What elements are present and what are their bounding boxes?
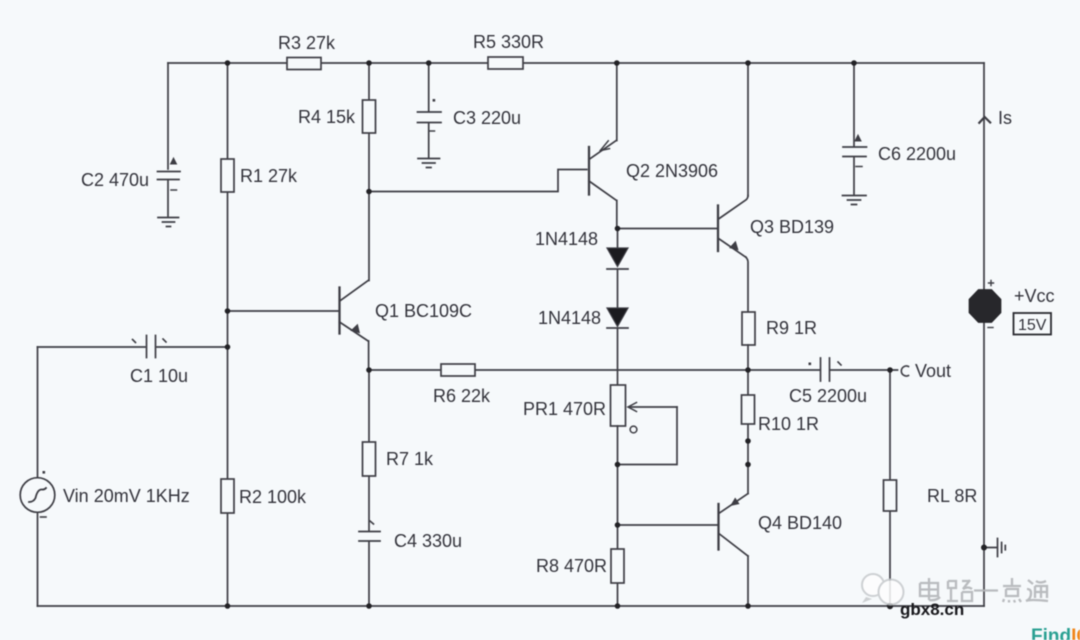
wire C6 branch <box>853 63 855 195</box>
transistor Q2 <box>588 147 590 195</box>
svg-text:Q4 BD140: Q4 BD140 <box>758 513 842 533</box>
node C1 right <box>225 344 231 350</box>
node bottom x617 <box>615 603 621 609</box>
resistor RL <box>884 480 897 511</box>
svg-text:PR1 470R: PR1 470R <box>523 399 606 419</box>
char tong <box>1026 580 1048 601</box>
svg-text:R6 22k: R6 22k <box>433 386 491 406</box>
wire mid output rail <box>369 369 898 371</box>
wire bottom rail <box>38 605 985 607</box>
node R10 Q4 a <box>745 438 751 444</box>
wire C1 branch <box>38 346 228 348</box>
resistor R2 <box>221 479 234 513</box>
ground below C6 <box>856 166 862 168</box>
wire left input column <box>37 347 39 606</box>
svg-text:R9 1R: R9 1R <box>766 318 817 338</box>
char dian2 <box>1003 578 1021 603</box>
wire top rail <box>168 62 984 64</box>
wire R4 column <box>368 63 370 192</box>
resistor R7 <box>363 442 376 476</box>
capacitor C3 <box>418 112 442 123</box>
resistor R4 <box>363 100 376 133</box>
svg-text:Is: Is <box>998 108 1012 128</box>
wire Q2 base with jog <box>369 170 587 192</box>
capacitor C2 <box>158 172 181 180</box>
capacitor C5 <box>821 358 830 381</box>
svg-text:R1 27k: R1 27k <box>240 166 298 186</box>
watermark logo bubbles <box>862 574 904 605</box>
node R9 R10 <box>745 367 751 373</box>
resistor R6 <box>441 364 475 376</box>
terminal Vout <box>901 366 908 376</box>
svg-text:R2 100k: R2 100k <box>239 487 307 507</box>
resistor R10 <box>742 395 755 424</box>
svg-text:RL 8R: RL 8R <box>927 486 977 506</box>
node R4 bottom <box>366 189 372 195</box>
transistor Q4 <box>747 465 749 494</box>
node C5 RL <box>887 367 893 373</box>
node top rail x854 <box>851 60 857 66</box>
potentiometer PR1 <box>611 385 626 426</box>
node right ground <box>981 545 987 551</box>
svg-text:Q1 BC109C: Q1 BC109C <box>375 301 472 321</box>
node bottom x227 <box>225 603 231 609</box>
svg-text:R10 1R: R10 1R <box>758 414 819 434</box>
svg-text:gbx8.cn: gbx8.cn <box>900 600 964 619</box>
svg-text:C4 330u: C4 330u <box>394 531 462 551</box>
wire right rail <box>983 63 985 606</box>
ground below C2 <box>158 218 179 227</box>
diode D2 1N4148 <box>607 308 628 327</box>
diode D1 1N4148 <box>607 248 628 267</box>
capacitor C6 <box>843 147 867 157</box>
node R10 Q4 b <box>745 462 751 468</box>
node top rail x617 <box>614 60 620 66</box>
svg-text:R5 330R: R5 330R <box>473 32 544 52</box>
char yi <box>974 589 998 591</box>
ground below C3 <box>418 159 440 168</box>
svg-text:R8 470R: R8 470R <box>536 556 607 576</box>
wire x=227 divider column <box>227 63 229 606</box>
node top rail x428 <box>426 60 432 66</box>
box 15V <box>1014 313 1052 335</box>
svg-text:Vout: Vout <box>915 361 951 381</box>
node top rail x369 <box>366 60 372 66</box>
watermark CJK text <box>920 578 1048 603</box>
wire left C2 branch vertical <box>167 63 169 169</box>
node Q1 base <box>225 308 231 314</box>
node bottom x748 <box>745 603 751 609</box>
node bottom x369 <box>366 603 372 609</box>
svg-text:C1 10u: C1 10u <box>130 366 188 386</box>
transistor Q1 <box>338 288 340 334</box>
node bottom x890 <box>887 603 893 609</box>
wire R7/C4 column <box>368 370 370 606</box>
svg-text:C3 220u: C3 220u <box>453 108 521 128</box>
resistor R9 <box>742 312 755 345</box>
wire RL column <box>889 370 891 606</box>
wire Q4 base <box>618 524 719 526</box>
battery node octagon <box>970 290 1001 322</box>
resistor R1 <box>221 159 234 192</box>
svg-text:1N4148: 1N4148 <box>535 229 598 249</box>
char lu <box>947 580 972 601</box>
ground right rotated <box>984 539 1005 557</box>
source Vin <box>20 478 55 513</box>
capacitor C1 <box>147 336 156 358</box>
svg-text:C5 2200u: C5 2200u <box>789 386 867 406</box>
wire Q3 base <box>618 228 719 230</box>
svg-text:Q3 BD139: Q3 BD139 <box>750 217 834 237</box>
node Q1 emitter <box>366 367 372 373</box>
node Q4 base <box>615 522 621 528</box>
node Q2 collector <box>615 226 621 232</box>
svg-text:R3 27k: R3 27k <box>278 33 336 53</box>
transistor Q3 <box>717 206 719 252</box>
node top rail x748 <box>745 60 751 66</box>
char dian <box>920 578 940 600</box>
svg-text:C6 2200u: C6 2200u <box>878 144 956 164</box>
capacitor C4 <box>359 532 380 542</box>
wire R9-R10 column <box>747 345 749 465</box>
svg-text:15V: 15V <box>1018 317 1047 334</box>
resistor R8 <box>611 549 624 583</box>
svg-text:Vin 20mV 1KHz: Vin 20mV 1KHz <box>63 486 190 506</box>
svg-text:R4 15k: R4 15k <box>298 107 356 127</box>
node top rail x227 <box>225 60 231 66</box>
resistor R3 <box>287 58 321 70</box>
svg-text:1N4148: 1N4148 <box>538 308 601 328</box>
svg-text:C2 470u: C2 470u <box>81 170 149 190</box>
resistor R5 <box>488 57 523 69</box>
current arrow Is <box>979 117 990 123</box>
wire C3 branch <box>428 63 430 158</box>
svg-text:+Vcc: +Vcc <box>1014 286 1055 306</box>
svg-text:R7 1k: R7 1k <box>386 449 434 469</box>
wire diode chain <box>617 229 619 386</box>
svg-text:FindIC: FindIC <box>1031 626 1080 640</box>
wire Q1 base <box>228 310 340 312</box>
wire PR1 bottom / R8 column <box>617 426 619 606</box>
node PR1 loop <box>615 462 621 468</box>
svg-text:Q2 2N3906: Q2 2N3906 <box>626 161 718 181</box>
